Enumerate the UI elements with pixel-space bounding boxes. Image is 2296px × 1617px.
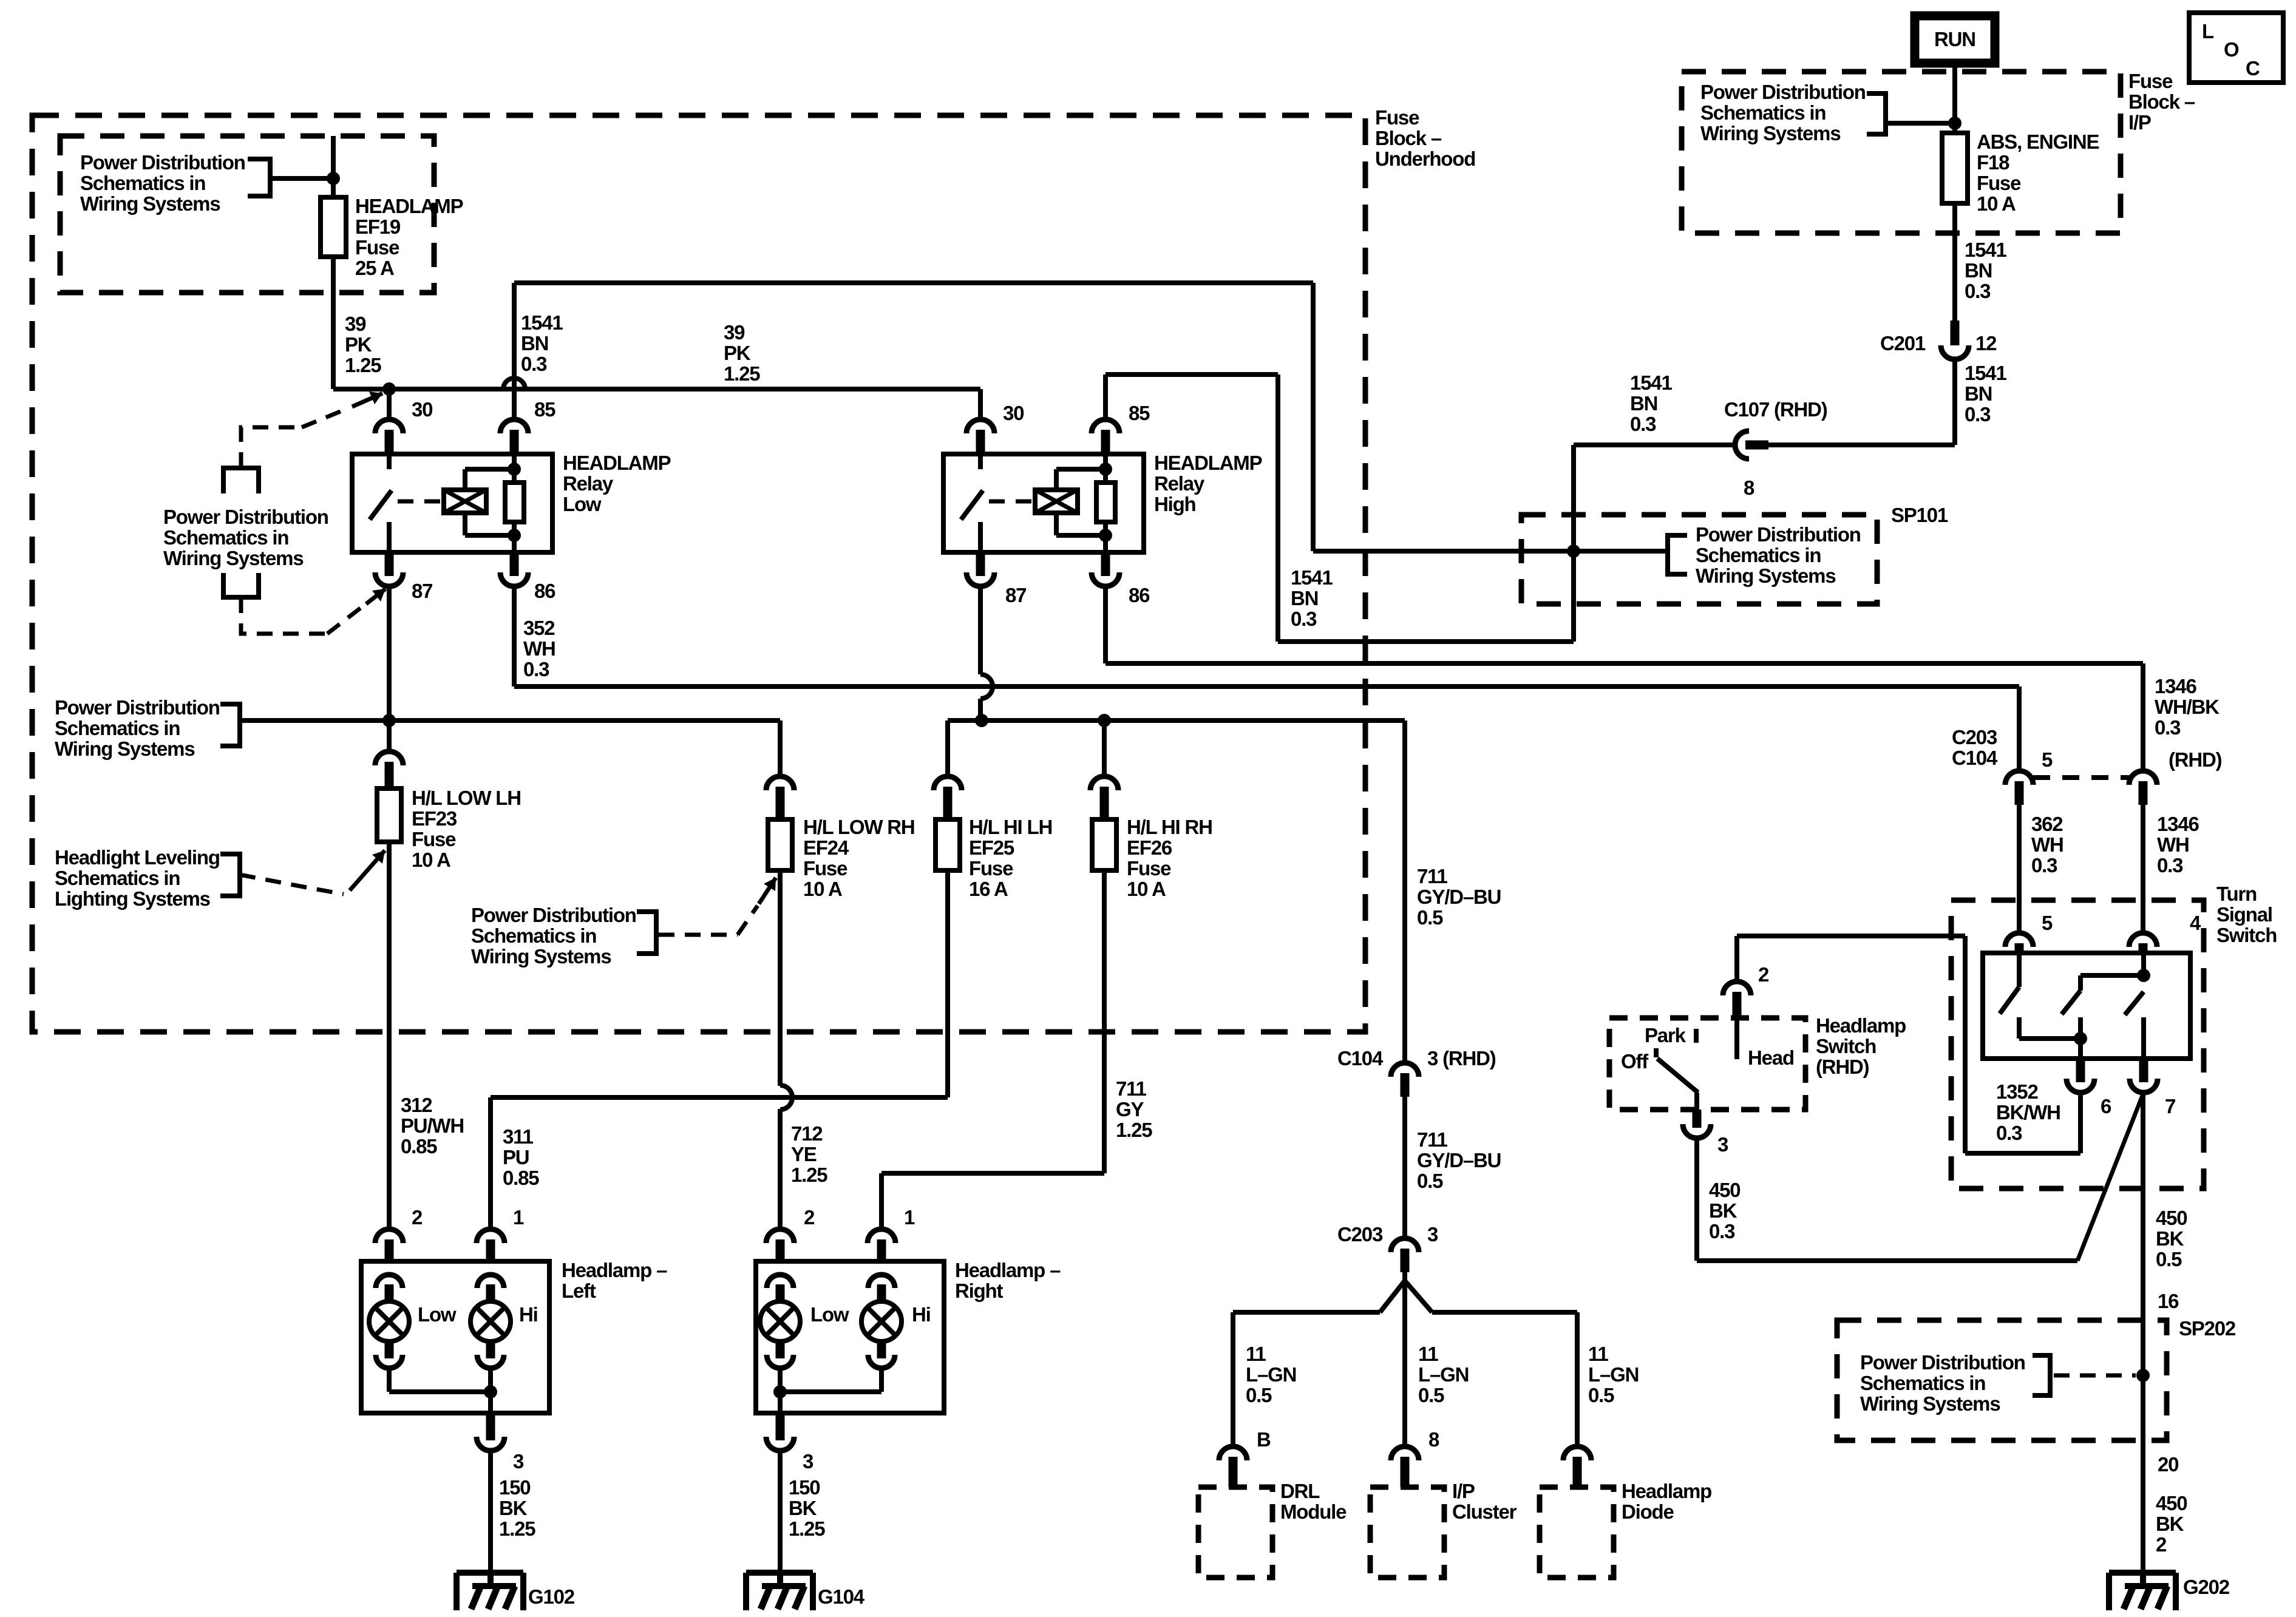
svg-text:WH/BK: WH/BK	[2155, 696, 2220, 718]
svg-text:3: 3	[1427, 1223, 1438, 1246]
svg-text:WH: WH	[2031, 833, 2063, 856]
svg-text:Park: Park	[1645, 1024, 1686, 1046]
svg-text:7: 7	[2165, 1095, 2175, 1117]
svg-text:86: 86	[1129, 584, 1150, 606]
svg-text:Right: Right	[955, 1280, 1004, 1302]
svg-text:10 A: 10 A	[1977, 192, 2016, 215]
ground G202	[2109, 1570, 2176, 1576]
svg-text:2: 2	[804, 1206, 815, 1229]
svg-text:Power Distribution: Power Distribution	[163, 506, 328, 528]
svg-text:87: 87	[412, 580, 432, 602]
svg-text:BK: BK	[2156, 1227, 2184, 1250]
svg-text:Cluster: Cluster	[1452, 1500, 1517, 1523]
svg-text:L–GN: L–GN	[1246, 1363, 1296, 1386]
svg-text:EF19: EF19	[355, 215, 401, 238]
svg-text:Fuse: Fuse	[2128, 70, 2173, 92]
svg-text:Low: Low	[418, 1303, 457, 1326]
svg-text:H/L HI RH: H/L HI RH	[1127, 816, 1212, 838]
Head contact	[1734, 1018, 1739, 1059]
wire 362 WH	[2017, 805, 2022, 933]
svg-text:G202: G202	[2183, 1576, 2230, 1598]
svg-text:0.5: 0.5	[2156, 1248, 2182, 1270]
connector C107 pin 8	[1735, 431, 1749, 459]
wire F18 down	[1952, 203, 1957, 320]
terminal 87 relay low	[375, 572, 403, 586]
svg-text:BK: BK	[499, 1497, 528, 1519]
wire 352 WH from relay low 86	[512, 586, 517, 686]
pointer: Power Distribution (EF24)	[637, 912, 656, 954]
left pin 3	[488, 1392, 493, 1413]
fuse EF23 H/L LOW LH	[375, 751, 403, 765]
svg-text:Schematics in: Schematics in	[80, 172, 205, 194]
fuse F18 ABS ENGINE 10A	[1942, 133, 1968, 203]
svg-text:8: 8	[1744, 476, 1754, 499]
svg-text:1: 1	[904, 1206, 915, 1229]
svg-text:1541: 1541	[1965, 362, 2006, 384]
svg-text:Schematics in: Schematics in	[471, 924, 596, 947]
wire 311 PU EF25 to left lamp pin1	[945, 870, 950, 1097]
DRL module pin B	[1219, 1446, 1247, 1460]
svg-text:87: 87	[1005, 584, 1026, 606]
svg-text:0.3: 0.3	[1630, 413, 1656, 435]
svg-text:1541: 1541	[1291, 566, 1333, 589]
wire to C107	[1768, 442, 1955, 447]
wire EF19 to 39PK bus	[331, 257, 336, 389]
Headlamp Diode dashed box	[1540, 1487, 1614, 1578]
svg-text:2: 2	[2156, 1533, 2167, 1556]
headlamp diode pin	[1563, 1446, 1591, 1460]
svg-text:Fuse: Fuse	[1127, 857, 1171, 880]
svg-text:0.3: 0.3	[2157, 854, 2183, 876]
svg-text:Power Distribution: Power Distribution	[55, 696, 220, 719]
svg-text:Head: Head	[1748, 1046, 1794, 1069]
node at relay low 30 drop	[382, 382, 396, 396]
svg-text:0.3: 0.3	[2031, 854, 2057, 876]
svg-text:11: 11	[1418, 1343, 1438, 1365]
left pin 1	[477, 1229, 504, 1243]
svg-text:C104: C104	[1952, 747, 1998, 769]
svg-text:711: 711	[1417, 865, 1447, 887]
svg-text:Lighting Systems: Lighting Systems	[55, 887, 210, 910]
svg-text:C201: C201	[1880, 332, 1926, 354]
svg-text:30: 30	[412, 398, 432, 421]
relay high resistor	[1103, 454, 1108, 483]
terminal 85 relay high	[1092, 419, 1119, 433]
svg-text:3: 3	[1717, 1133, 1728, 1156]
right lamp common bus	[780, 1389, 881, 1394]
fuse EF25 H/L HI LH	[934, 776, 962, 790]
wire 352WH to C203/C104 5	[2017, 686, 2022, 771]
relay U2 HEADLAMP Relay High box	[943, 454, 1144, 552]
wire drop to relay high 30	[978, 389, 983, 419]
svg-text:EF25: EF25	[969, 836, 1014, 859]
TSS switch internals	[2017, 953, 2022, 987]
svg-text:0.5: 0.5	[1418, 1384, 1444, 1406]
svg-text:712: 712	[791, 1122, 823, 1145]
svg-text:BK: BK	[1709, 1199, 1737, 1222]
svg-text:1346: 1346	[2155, 675, 2196, 697]
svg-text:2: 2	[412, 1206, 423, 1229]
svg-text:10 A: 10 A	[803, 878, 842, 900]
svg-text:Fuse: Fuse	[969, 857, 1013, 880]
svg-text:O: O	[2224, 38, 2239, 61]
wire 450 BK 0.3	[1694, 1138, 1699, 1261]
svg-text:SP101: SP101	[1891, 504, 1948, 526]
svg-text:3: 3	[513, 1450, 524, 1473]
svg-text:C104: C104	[1337, 1047, 1384, 1070]
svg-text:H/L LOW RH: H/L LOW RH	[803, 816, 915, 838]
wire 150 BK to G102	[488, 1451, 493, 1573]
pointer bracket Power Distribution (I/P)	[1867, 93, 1886, 134]
svg-text:150: 150	[789, 1476, 820, 1499]
wire relay high 87 down with hop	[978, 586, 983, 674]
svg-text:PU/WH: PU/WH	[401, 1114, 464, 1137]
TSS inner box	[1983, 953, 2190, 1059]
svg-text:1541: 1541	[1630, 371, 1672, 394]
svg-text:1352: 1352	[1996, 1080, 2038, 1103]
svg-text:High: High	[1154, 493, 1196, 515]
svg-text:C: C	[2246, 57, 2260, 80]
left lamp common bus	[389, 1389, 491, 1394]
svg-text:Fuse: Fuse	[412, 828, 456, 850]
svg-text:1346: 1346	[2157, 813, 2199, 835]
svg-text:1.25: 1.25	[724, 362, 760, 385]
svg-text:312: 312	[401, 1094, 432, 1116]
svg-text:F18: F18	[1977, 151, 2009, 174]
svg-text:Underhood: Underhood	[1375, 147, 1475, 170]
splice SP101 vertical + node	[1571, 445, 1576, 642]
connector C201 pin 12	[1951, 320, 1960, 345]
svg-text:(RHD): (RHD)	[1816, 1056, 1869, 1078]
svg-text:0.5: 0.5	[1588, 1384, 1614, 1406]
svg-text:Block –: Block –	[2128, 90, 2195, 113]
svg-text:711: 711	[1116, 1077, 1146, 1100]
svg-text:WH: WH	[2157, 833, 2189, 856]
svg-text:L: L	[2202, 20, 2214, 42]
svg-text:Schematics in: Schematics in	[1696, 544, 1821, 566]
fuse EF19 HEADLAMP 25A	[321, 197, 346, 257]
wire drop to relay low 30	[387, 389, 392, 419]
svg-text:25 A: 25 A	[355, 257, 394, 279]
svg-text:BN: BN	[1965, 259, 1992, 282]
svg-text:39: 39	[345, 313, 366, 335]
svg-text:20: 20	[2158, 1453, 2178, 1476]
svg-text:BN: BN	[1630, 392, 1657, 415]
svg-text:12: 12	[1975, 332, 1997, 354]
svg-text:4: 4	[2190, 912, 2201, 934]
Fuse Block - I/P dashed box	[1682, 72, 2121, 233]
svg-text:1: 1	[513, 1206, 524, 1229]
connector C104 pin 3 (RHD)	[1391, 1063, 1419, 1077]
svg-text:0.3: 0.3	[1996, 1122, 2022, 1144]
svg-text:11: 11	[1588, 1343, 1608, 1365]
svg-text:Switch: Switch	[1816, 1035, 1876, 1057]
svg-text:1.25: 1.25	[499, 1517, 535, 1540]
svg-text:Schematics in: Schematics in	[1700, 101, 1826, 124]
svg-text:311: 311	[503, 1125, 533, 1148]
svg-text:85: 85	[534, 398, 555, 421]
headlamp switch pin 3	[1694, 1093, 1699, 1110]
splice SP202 dashed box	[1837, 1320, 2167, 1440]
svg-text:39: 39	[724, 321, 745, 344]
wire high-beam feed bus	[948, 718, 1405, 723]
terminal 86 relay low	[500, 572, 528, 586]
headlamp right box	[756, 1261, 944, 1413]
svg-text:1.25: 1.25	[1116, 1119, 1152, 1141]
wire relay high 85 loop	[1103, 375, 1108, 419]
svg-text:Headlamp: Headlamp	[1622, 1480, 1711, 1502]
headlamp switch pin 2	[1734, 936, 1739, 981]
svg-text:10 A: 10 A	[1127, 878, 1166, 900]
ground G104	[746, 1570, 813, 1576]
wire 312 PU/WH EF23 to left lamp pin2	[387, 842, 392, 1229]
svg-text:BN: BN	[521, 332, 548, 354]
svg-text:DRL: DRL	[1280, 1480, 1320, 1502]
relay low coil	[444, 490, 486, 513]
svg-text:BK: BK	[789, 1497, 817, 1519]
ground G102	[457, 1570, 523, 1576]
svg-text:PK: PK	[345, 333, 372, 356]
svg-text:Headlamp –: Headlamp –	[562, 1259, 667, 1281]
dashed RHD link	[2033, 775, 2129, 780]
svg-text:C107 (RHD): C107 (RHD)	[1724, 398, 1827, 421]
svg-text:ABS, ENGINE: ABS, ENGINE	[1977, 131, 2099, 153]
wire 39 PK bus	[333, 387, 980, 392]
svg-text:5: 5	[2042, 912, 2053, 934]
svg-text:Diode: Diode	[1622, 1500, 1674, 1523]
svg-text:EF26: EF26	[1127, 836, 1172, 859]
svg-text:16: 16	[2158, 1290, 2179, 1312]
svg-text:1.25: 1.25	[345, 354, 381, 376]
TSS pin 4	[2129, 933, 2157, 947]
svg-text:EF24: EF24	[803, 836, 849, 859]
svg-text:0.3: 0.3	[1965, 403, 1991, 425]
svg-text:Switch: Switch	[2216, 924, 2277, 946]
headlamp left box	[361, 1261, 549, 1413]
svg-text:GY: GY	[1116, 1098, 1144, 1120]
I/P Cluster dashed box	[1370, 1487, 1444, 1578]
svg-text:16 A: 16 A	[969, 878, 1008, 900]
svg-text:YE: YE	[791, 1143, 817, 1165]
wire 1541 BN top run (low)	[514, 280, 1313, 285]
svg-text:0.3: 0.3	[2155, 716, 2181, 739]
svg-text:0.3: 0.3	[523, 658, 549, 680]
svg-text:450: 450	[2156, 1492, 2187, 1514]
svg-text:3 (RHD): 3 (RHD)	[1427, 1047, 1496, 1070]
svg-text:G102: G102	[528, 1585, 575, 1608]
wire 1346 from relay high 86	[1103, 586, 1108, 663]
fuse EF24 H/L LOW RH	[766, 776, 794, 790]
switch blade	[1657, 1059, 1698, 1093]
svg-text:Wiring Systems: Wiring Systems	[80, 192, 220, 215]
svg-text:H/L HI LH: H/L HI LH	[969, 816, 1052, 838]
wire 150 BK to G104	[778, 1451, 783, 1573]
diagonal to TSS pin 7	[2077, 1093, 2144, 1261]
svg-text:Fuse: Fuse	[803, 857, 847, 880]
svg-text:GY/D–BU: GY/D–BU	[1417, 1149, 1501, 1171]
svg-text:PU: PU	[503, 1146, 529, 1168]
wire C201 down to corner	[1952, 359, 1957, 445]
svg-text:H/L LOW LH: H/L LOW LH	[412, 787, 521, 809]
svg-text:3: 3	[803, 1450, 813, 1473]
SP101 pointer bracket	[1668, 535, 1687, 574]
svg-text:L–GN: L–GN	[1418, 1363, 1469, 1386]
wire to C203	[1402, 1097, 1407, 1238]
svg-text:0.85: 0.85	[401, 1135, 437, 1158]
svg-text:Schematics in: Schematics in	[1860, 1372, 1985, 1394]
svg-text:Low: Low	[810, 1303, 849, 1326]
svg-text:0.3: 0.3	[521, 353, 547, 375]
svg-text:G104: G104	[818, 1585, 865, 1608]
svg-text:5: 5	[2042, 748, 2053, 771]
svg-text:Low: Low	[563, 493, 602, 515]
svg-text:2: 2	[1758, 963, 1769, 986]
svg-text:10 A: 10 A	[412, 849, 450, 871]
terminal 30 relay high	[966, 419, 994, 433]
svg-text:Wiring Systems: Wiring Systems	[1696, 564, 1835, 587]
pointer: Headlight Leveling Schematics	[220, 854, 240, 896]
svg-text:Fuse: Fuse	[355, 236, 399, 259]
svg-text:Power Distribution: Power Distribution	[1700, 81, 1866, 103]
relay U1 HEADLAMP Relay Low box	[352, 454, 552, 552]
wire 1352 BK/WH from pin6	[2078, 1093, 2083, 1153]
right low bulb	[767, 1275, 793, 1288]
svg-text:Power Distribution: Power Distribution	[80, 151, 245, 174]
svg-text:I/P: I/P	[1452, 1480, 1475, 1502]
TSS pin 6	[2067, 1079, 2094, 1093]
terminal 86 relay high	[1092, 572, 1119, 586]
svg-text:0.5: 0.5	[1417, 1170, 1443, 1192]
svg-text:11: 11	[1246, 1343, 1266, 1365]
svg-text:Module: Module	[1280, 1500, 1347, 1523]
wire relay low 85 up	[512, 283, 517, 419]
svg-text:1.25: 1.25	[791, 1164, 827, 1186]
svg-text:86: 86	[534, 580, 555, 602]
terminal 85 relay low	[500, 419, 528, 433]
relay low actuator dashes	[398, 500, 441, 504]
pointer bracket: Power Distribution Schematics (top-left)	[248, 159, 270, 196]
relay low switch	[387, 454, 392, 469]
terminal 87 relay high	[966, 572, 994, 586]
terminal 30 relay low	[375, 419, 403, 433]
wire 450 BK 0.5 from pin 7	[2141, 1093, 2145, 1573]
svg-text:Relay: Relay	[1154, 472, 1205, 495]
svg-text:30: 30	[1003, 402, 1024, 424]
svg-text:WH: WH	[523, 637, 555, 660]
svg-text:352: 352	[523, 617, 555, 639]
svg-text:RUN: RUN	[1934, 28, 1975, 50]
svg-text:Wiring Systems: Wiring Systems	[471, 945, 611, 968]
svg-text:Power Distribution: Power Distribution	[1860, 1351, 2025, 1374]
wire RUN to F18	[1952, 63, 1957, 133]
svg-text:SP202: SP202	[2179, 1317, 2236, 1340]
svg-text:Schematics in: Schematics in	[55, 717, 180, 739]
Fuse Block - Underhood outer dashed box	[32, 115, 1365, 1032]
right pin 3	[778, 1392, 783, 1413]
right hi bulb	[868, 1275, 895, 1288]
svg-text:Power Distribution: Power Distribution	[1696, 523, 1861, 546]
svg-text:Fuse: Fuse	[1375, 106, 1419, 129]
svg-text:Off: Off	[1621, 1050, 1649, 1073]
svg-text:BK/WH: BK/WH	[1996, 1101, 2060, 1124]
Headlamp Switch (RHD) dashed box	[1609, 1018, 1805, 1110]
svg-text:Headlight Leveling: Headlight Leveling	[55, 846, 220, 869]
connector (RHD)	[2129, 771, 2157, 785]
svg-text:HEADLAMP: HEADLAMP	[355, 195, 463, 217]
wire 712 YE EF24 to right lamp pin2 with hop	[778, 870, 783, 1086]
svg-text:HEADLAMP: HEADLAMP	[1154, 452, 1262, 474]
TSS pin 5	[2005, 933, 2033, 947]
svg-text:C203: C203	[1952, 726, 1997, 748]
svg-text:Left: Left	[562, 1280, 596, 1302]
inner dashed box (EF19 power distribution)	[60, 136, 434, 293]
RUN box	[1915, 16, 1995, 63]
svg-text:GY/D–BU: GY/D–BU	[1417, 886, 1501, 908]
wire EF19 feed from box top	[331, 136, 336, 197]
svg-text:Power Distribution: Power Distribution	[471, 904, 636, 926]
svg-text:Turn: Turn	[2216, 883, 2257, 905]
SP202 pointer bracket	[2033, 1355, 2050, 1395]
svg-text:Headlamp –: Headlamp –	[955, 1259, 1061, 1281]
relay high actuator dashes	[989, 500, 1032, 504]
wire relay low 87 down	[387, 586, 392, 751]
wire 711 GY EF26 to right lamp pin1	[1102, 870, 1107, 1173]
svg-text:362: 362	[2031, 813, 2063, 835]
node junction on EF19 wire	[327, 172, 340, 185]
svg-text:Relay: Relay	[563, 472, 614, 495]
left hi bulb	[477, 1275, 504, 1288]
left low bulb	[376, 1275, 402, 1288]
svg-text:L–GN: L–GN	[1588, 1363, 1639, 1386]
relay low resistor	[512, 454, 517, 483]
svg-text:1541: 1541	[1965, 239, 2006, 261]
svg-text:711: 711	[1417, 1128, 1447, 1151]
connector C203/C104 pin 5	[2005, 771, 2033, 785]
svg-text:0.3: 0.3	[1965, 280, 1991, 302]
svg-text:Schematics in: Schematics in	[55, 867, 180, 889]
svg-text:Wiring Systems: Wiring Systems	[55, 737, 194, 760]
svg-text:0.85: 0.85	[503, 1167, 539, 1189]
wire low-beam feed bus	[240, 718, 780, 723]
wire 711 GY/D-BU down	[1402, 720, 1407, 1063]
svg-text:0.5: 0.5	[1417, 906, 1443, 929]
left pin 2	[375, 1229, 403, 1243]
svg-text:Hi: Hi	[519, 1303, 538, 1326]
svg-text:450: 450	[2156, 1207, 2187, 1229]
Off contact	[1654, 1048, 1659, 1057]
svg-text:0.3: 0.3	[1709, 1220, 1735, 1242]
wire 1346 WH	[2141, 805, 2145, 933]
svg-text:BN: BN	[1965, 382, 1992, 405]
svg-text:0.5: 0.5	[1246, 1384, 1272, 1406]
svg-text:Headlamp: Headlamp	[1816, 1014, 1906, 1037]
svg-text:Wiring Systems: Wiring Systems	[1860, 1392, 2000, 1415]
svg-text:Schematics in: Schematics in	[163, 526, 288, 549]
right pin 2	[766, 1229, 794, 1243]
svg-text:C203: C203	[1337, 1223, 1383, 1246]
splice fork below C203	[1402, 1272, 1407, 1446]
DRL Module dashed box	[1198, 1487, 1272, 1578]
relay high coil	[1035, 490, 1078, 513]
svg-text:I/P: I/P	[2128, 111, 2151, 134]
splice SP101 dashed box	[1521, 515, 1877, 604]
TSS pin 7	[2130, 1079, 2158, 1093]
LOC box	[2189, 13, 2283, 83]
fuse EF26 H/L HI RH	[1090, 776, 1118, 790]
svg-text:Fuse: Fuse	[1977, 172, 2021, 194]
Park contact	[1694, 1029, 1699, 1043]
svg-text:Block –: Block –	[1375, 127, 1442, 149]
